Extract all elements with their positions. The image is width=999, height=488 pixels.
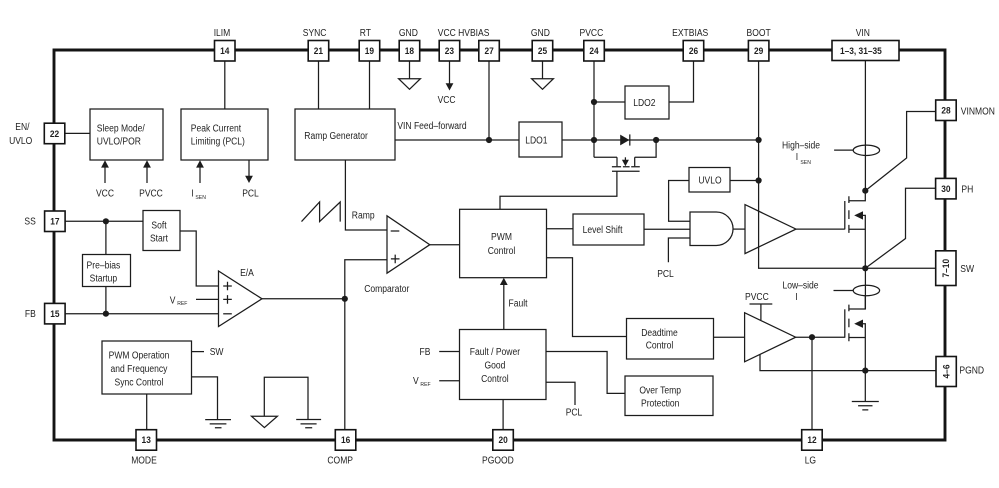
wire COMP node down to COMP pin16: [344, 299, 346, 430]
pin 14 ILIM: [214, 28, 235, 61]
node VREF label at Fault block: [413, 376, 431, 388]
node High-side ISEN label: [782, 141, 820, 166]
pin 16 COMP: [327, 430, 355, 467]
wire PWM Control to Deadtime Control: [547, 258, 627, 337]
wire Fault/Power Good to Over Temp Protection: [546, 352, 625, 394]
wire high-side driver output to high-side FET gate: [796, 228, 845, 230]
wire VIN feed-forward line Ramp Generator to LDO1: [395, 139, 519, 141]
wire ILIM pin14 to Peak Current Limiting: [224, 61, 226, 109]
wire PH pin30 to SW node: [865, 188, 935, 268]
wire PCL stub to AND gate bottom input: [668, 238, 690, 262]
svg-text:Comparator: Comparator: [364, 284, 410, 295]
svg-text:Control: Control: [488, 246, 516, 257]
svg-text:20: 20: [498, 435, 507, 445]
svg-text:SEN: SEN: [195, 195, 206, 201]
wire PWM Operation down to MODE pin13: [146, 394, 148, 430]
wire PWM Operation block to ground: [192, 377, 218, 420]
wire ISEN arrow into Peak Current block: [191, 160, 205, 201]
power PVCC bar above low-side driver: [750, 304, 773, 320]
wire error amp output to COMP node: [262, 298, 345, 300]
wire Level Shift to AND gate middle input: [644, 228, 690, 230]
svg-text:Over Temp: Over Temp: [639, 385, 681, 396]
svg-text:Ramp: Ramp: [352, 210, 375, 221]
svg-text:Deadtime: Deadtime: [641, 328, 678, 339]
svg-text:23: 23: [445, 46, 454, 56]
svg-text:16: 16: [341, 435, 350, 445]
node BOOT rail top junction: [756, 137, 762, 143]
svg-text:I: I: [191, 188, 193, 199]
svg-text:UVLO: UVLO: [698, 176, 722, 187]
svg-text:SW: SW: [960, 264, 975, 275]
block Ramp Generator: [295, 109, 395, 160]
block Peak Current Limiting (PCL): [181, 109, 268, 160]
wire PWM Control top to pass-device gate: [500, 171, 617, 209]
svg-text:24: 24: [589, 46, 599, 56]
svg-text:GND: GND: [399, 28, 418, 39]
ground open triangle under pin 25: [532, 79, 554, 90]
svg-text:PGOOD: PGOOD: [482, 456, 514, 467]
block PWM Control: [460, 209, 547, 277]
svg-text:PVCC: PVCC: [580, 28, 604, 39]
svg-text:RT: RT: [360, 28, 371, 39]
wire BOOT pin29 down through UVLO node and high-side driver to SW rail: [759, 61, 866, 268]
svg-text:SW: SW: [210, 347, 225, 358]
pin 12 LG: [802, 430, 823, 467]
svg-text:EXTBIAS: EXTBIAS: [672, 28, 709, 39]
svg-text:Pre–bias: Pre–bias: [87, 260, 121, 271]
svg-text:PGND: PGND: [959, 366, 984, 377]
svg-text:PCL: PCL: [242, 188, 259, 199]
wire Ramp Generator down to comparator - input: [345, 160, 387, 230]
svg-text:30: 30: [941, 184, 950, 194]
wire Pre-bias Startup down to FB line: [105, 287, 107, 314]
node PVCC-LDO2 junction: [591, 99, 597, 105]
pin 19 RT: [359, 28, 380, 61]
wire LG node down to LG pin12: [811, 337, 813, 429]
pin 13 MODE: [131, 430, 157, 467]
svg-text:I: I: [796, 152, 798, 163]
op-amp PWM comparator: [387, 216, 430, 273]
wire PCL arrow out of Peak Current block: [242, 160, 259, 199]
wire VINMON pin28 to high-side drain node: [865, 112, 935, 191]
wire PCL stub from Fault/Power Good: [546, 382, 575, 405]
svg-text:Level Shift: Level Shift: [583, 225, 623, 236]
svg-text:25: 25: [538, 46, 547, 56]
wire Fault/Power Good down to PGOOD pin20: [502, 400, 504, 430]
wire LDO2 input from PVCC node: [594, 101, 625, 103]
wire AND gate output to high-side driver: [733, 228, 745, 230]
block Deadtime Control: [627, 319, 714, 360]
pin 25 GND: [531, 28, 553, 61]
svg-text:Sync Control: Sync Control: [115, 377, 164, 388]
wire VCC pin23 arrow down: [449, 61, 451, 84]
svg-text:VCC: VCC: [438, 95, 456, 106]
svg-text:PWM: PWM: [491, 232, 512, 243]
amplifier low-side gate driver: [745, 313, 796, 362]
ground open triangle AGND: [252, 416, 278, 427]
wire Soft Start output to error amp top + input: [180, 231, 219, 286]
svg-text:UVLO/POR: UVLO/POR: [97, 136, 141, 147]
svg-text:Fault / Power: Fault / Power: [470, 347, 521, 358]
svg-text:VIN: VIN: [856, 28, 870, 39]
svg-text:Limiting (PCL): Limiting (PCL): [191, 136, 245, 147]
ground 3-line under PWM Operation: [205, 420, 231, 428]
wire VCC arrow into Sleep Mode block: [96, 160, 114, 199]
svg-text:ILIM: ILIM: [214, 28, 231, 39]
pin 15 FB: [25, 303, 65, 324]
svg-text:SEN: SEN: [800, 160, 811, 166]
wire Deadtime Control to low-side driver: [714, 336, 745, 338]
svg-text:Soft: Soft: [151, 220, 166, 231]
AND gate gate-drive qualifier: [690, 212, 733, 246]
pin 22 EN/: [9, 122, 65, 147]
IC boundary border: [54, 50, 945, 440]
block LDO2: [625, 86, 669, 119]
transistor Q3 low-side power FET: [845, 295, 866, 341]
svg-text:Protection: Protection: [641, 399, 679, 410]
wire VREF input into Fault/Power Good block: [439, 380, 459, 382]
svg-text:PVCC: PVCC: [139, 188, 163, 199]
wire RT pin19 to Ramp Generator: [369, 61, 371, 109]
svg-text:UVLO: UVLO: [9, 136, 33, 147]
svg-text:E/A: E/A: [240, 268, 254, 279]
pin 21 SYNC: [303, 28, 329, 61]
pin 17 SS: [24, 211, 65, 232]
svg-text:22: 22: [50, 129, 59, 139]
node Low-side I label: [782, 280, 818, 303]
pin 23: [439, 41, 460, 62]
node LDO1 output junction: [591, 137, 597, 143]
ground 3-line right of AGND triangle: [296, 420, 321, 428]
svg-text:29: 29: [754, 46, 763, 56]
transistor Q2 high-side power FET: [845, 191, 866, 269]
block Soft Start: [143, 211, 180, 251]
pin 1-3, 31-35 VIN: [832, 28, 899, 61]
svg-text:REF: REF: [420, 382, 431, 388]
wire PGND node down to power ground: [864, 371, 866, 402]
pin 7-10 SW: [936, 251, 975, 286]
wire Fault arrow from Fault/Power Good up to PWM Control: [503, 284, 505, 330]
wire PWM Control to Level Shift: [547, 228, 574, 230]
svg-text:4–6: 4–6: [941, 365, 951, 379]
wire SW node down through low-side sense to FET drain: [864, 268, 866, 309]
svg-text:EN/: EN/: [15, 122, 29, 133]
svg-text:28: 28: [941, 106, 950, 116]
wire VIN bus down to high-side FET drain node: [864, 61, 866, 191]
svg-text:VCC: VCC: [96, 188, 114, 199]
svg-text:Control: Control: [646, 341, 674, 352]
svg-text:VINMON: VINMON: [961, 107, 995, 118]
svg-text:BOOT: BOOT: [747, 28, 771, 39]
wire COMP node up to comparator + input: [345, 260, 387, 299]
node COMP junction: [342, 296, 348, 302]
wire low-side driver return rail to PGND node: [760, 354, 865, 370]
svg-text:26: 26: [689, 46, 698, 56]
ground open triangle under pin 18: [399, 79, 421, 90]
wire comparator output to PWM Control: [430, 244, 460, 246]
svg-text:Fault: Fault: [509, 299, 528, 310]
wire SS node down to Pre-bias Startup: [105, 221, 107, 254]
wire low-side FET source to PGND node: [864, 338, 866, 371]
block Fault / Power Good Control: [460, 330, 547, 400]
wire PVCC arrow into Sleep Mode block: [139, 160, 163, 199]
wire SW pin 7-10 to SW node: [865, 267, 935, 269]
pin 27 VCC HVBIAS: [438, 28, 500, 61]
svg-text:SYNC: SYNC: [303, 28, 327, 39]
node FB junction: [103, 311, 109, 317]
node SW junction: [862, 265, 868, 271]
svg-text:Peak Current: Peak Current: [191, 123, 242, 134]
node PGND junction: [862, 368, 868, 374]
wire LDO1 output line to BOOT rail: [562, 139, 759, 141]
node diode cathode junction: [653, 137, 659, 143]
svg-text:Good: Good: [484, 360, 505, 371]
svg-text:18: 18: [405, 46, 414, 56]
svg-text:13: 13: [142, 435, 151, 445]
node VREF label at error amp: [170, 295, 188, 307]
svg-text:SS: SS: [24, 217, 36, 228]
svg-text:V: V: [170, 295, 176, 306]
svg-text:V: V: [413, 376, 419, 387]
svg-text:21: 21: [314, 46, 323, 56]
svg-text:PCL: PCL: [657, 269, 674, 280]
svg-text:7–10: 7–10: [941, 259, 951, 278]
pin 18 GND: [399, 28, 420, 61]
svg-text:27: 27: [484, 46, 493, 56]
op-amp E/A error amplifier: [219, 271, 263, 327]
svg-text:14: 14: [220, 46, 230, 56]
block Over Temp Protection: [625, 376, 713, 416]
wire HVBIAS pin27 down to VIN feed-forward line: [488, 61, 490, 140]
block LDO1: [519, 122, 562, 157]
svg-text:GND: GND: [531, 28, 550, 39]
svg-text:LDO1: LDO1: [525, 135, 547, 146]
block Pre-bias Startup: [83, 255, 131, 287]
svg-text:Startup: Startup: [90, 273, 118, 284]
svg-text:17: 17: [50, 217, 59, 227]
block UVLO: [689, 168, 730, 193]
pin 4-6 PGND: [936, 357, 984, 387]
wire UVLO output to AND gate top input: [669, 181, 690, 222]
wire UVLO to BOOT rail node: [730, 180, 759, 182]
svg-text:PVCC: PVCC: [745, 292, 769, 303]
wire SS pin17 to Soft Start: [66, 220, 143, 222]
pin 20 PGOOD: [482, 430, 514, 467]
diode D1 on LDO1 output: [620, 135, 629, 146]
pin 30 PH: [936, 178, 974, 199]
svg-text:PH: PH: [961, 185, 973, 196]
svg-text:REF: REF: [177, 301, 188, 307]
svg-text:and Frequency: and Frequency: [111, 364, 168, 375]
block Sleep Mode/UVLO/POR: [90, 109, 163, 160]
wire EN/UVLO pin22 to Sleep Mode block: [65, 132, 90, 134]
block PWM Operation and Frequency Sync Control: [102, 341, 192, 394]
svg-text:Low–side: Low–side: [782, 280, 818, 291]
svg-text:15: 15: [50, 309, 59, 319]
svg-text:LG: LG: [805, 456, 816, 467]
node LG gate junction: [809, 334, 815, 340]
svg-text:1–3, 31–35: 1–3, 31–35: [840, 46, 882, 56]
svg-text:LDO2: LDO2: [633, 98, 655, 109]
amplifier high-side gate driver: [745, 205, 796, 254]
wire low-side driver output to low-side FET gate: [796, 336, 845, 338]
wire analog gnd triangle to 3-line ground: [264, 377, 308, 419]
wire SW stub from PWM Operation block: [192, 351, 205, 353]
svg-text:PWM Operation: PWM Operation: [109, 351, 170, 362]
low-side current sense element: [834, 290, 854, 292]
wire PVCC pin24 down to LDO2 node and pass device: [593, 61, 595, 157]
node high-side drain VIN junction: [862, 188, 868, 194]
svg-text:12: 12: [807, 435, 816, 445]
svg-text:FB: FB: [420, 347, 431, 358]
pin 29 BOOT: [747, 28, 771, 61]
pin 26 EXTBIAS: [672, 28, 709, 61]
svg-text:PCL: PCL: [566, 408, 583, 419]
wire GND pin25 to ground: [542, 61, 544, 79]
wire FB input into Fault/Power Good block: [439, 351, 459, 353]
pin 28 VINMON: [936, 100, 995, 121]
pin 24 PVCC: [580, 28, 605, 61]
svg-text:Sleep Mode/: Sleep Mode/: [97, 123, 145, 134]
wire SYNC pin21 to Ramp Generator: [318, 61, 320, 109]
transistor Q1 bypass pass device: [594, 140, 656, 171]
svg-text:COMP: COMP: [327, 456, 353, 467]
node UVLO-BOOT junction: [756, 177, 762, 183]
svg-text:19: 19: [365, 46, 374, 56]
sawtooth ramp waveform symbol: [302, 202, 341, 222]
svg-text:Ramp Generator: Ramp Generator: [304, 131, 368, 142]
wire GND pin18 to ground: [409, 61, 411, 79]
wire FB pin15 to error amp inverting input: [66, 313, 219, 315]
wire VREF to error amp + input: [196, 298, 219, 300]
svg-text:I: I: [795, 292, 797, 303]
svg-text:VIN Feed–forward: VIN Feed–forward: [397, 121, 466, 132]
node SS junction: [103, 218, 109, 224]
svg-text:FB: FB: [25, 309, 36, 320]
svg-text:VCC HVBIAS: VCC HVBIAS: [438, 28, 490, 39]
svg-text:MODE: MODE: [131, 456, 157, 467]
wire LDO2 output up to EXTBIAS pin26: [669, 61, 694, 102]
ground 3-line power ground under low-side FET: [852, 402, 879, 410]
high-side current sense element: [834, 149, 853, 151]
block Level Shift: [573, 214, 644, 245]
svg-text:High–side: High–side: [782, 141, 820, 152]
node VIN feed-forward / HVBIAS junction: [486, 137, 492, 143]
svg-text:Control: Control: [481, 374, 509, 385]
svg-text:Start: Start: [150, 233, 168, 244]
wire PGND node to PGND pin 4-6: [865, 370, 936, 372]
